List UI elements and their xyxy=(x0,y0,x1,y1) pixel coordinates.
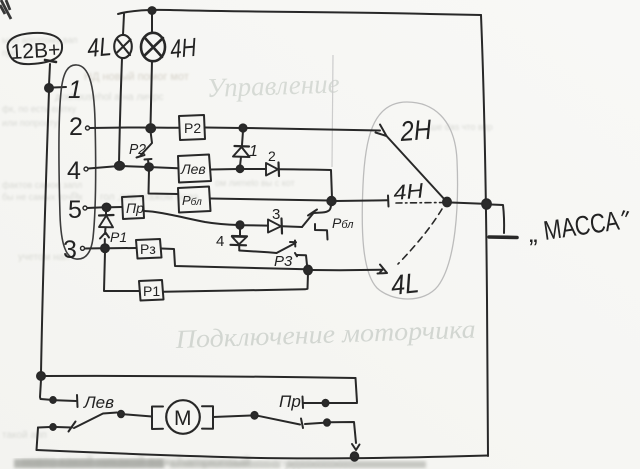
diode 3 xyxy=(268,220,281,233)
svg-text:1: 1 xyxy=(68,76,82,104)
svg-text:4: 4 xyxy=(216,233,224,250)
switch Рбл contact xyxy=(302,205,331,228)
node pin1 junction xyxy=(45,84,53,92)
svg-text:Рз: Рз xyxy=(140,241,156,257)
diode 1 xyxy=(242,131,243,145)
wire node to 4L contact xyxy=(312,269,382,271)
wire pin5 to node xyxy=(88,206,105,209)
svg-text:Пр: Пр xyxy=(126,200,144,216)
wire 12В+ to pin1 node xyxy=(49,64,50,85)
relay coil Рбл xyxy=(178,187,211,213)
wire Рз down and right to node xyxy=(162,249,307,270)
node bottom-left junction xyxy=(37,372,45,380)
faint oval around output contacts xyxy=(362,102,457,299)
wire node down to Р1 coil xyxy=(104,252,139,291)
svg-text:такой апп: такой апп xyxy=(2,430,47,441)
relay coil Р1 xyxy=(139,280,164,301)
wire Лев contact branch xyxy=(40,380,50,400)
wire diode4 to Р3 lever xyxy=(239,251,276,254)
node pin2 / lamp 4H junction xyxy=(146,124,155,132)
node rail B contact xyxy=(50,424,56,430)
node МАССА branch xyxy=(482,199,491,209)
diode 4 xyxy=(239,228,241,235)
dashed wire 4Н to focal node xyxy=(396,202,443,205)
motor M body xyxy=(166,400,200,434)
connector oval xyxy=(59,65,96,259)
svg-text:Р3: Р3 xyxy=(274,253,293,270)
wire Лев to diode1 node xyxy=(211,168,238,171)
svg-text:ше das что впр: ше das что впр xyxy=(430,122,493,132)
node Лев upper contact xyxy=(50,397,56,403)
pin 2 terminal xyxy=(86,126,90,130)
wire bottom rail A xyxy=(45,376,356,378)
switch Пр lever xyxy=(258,416,300,425)
dashed wire focal to 4L xyxy=(398,209,442,264)
node diode3 top / diode4 xyxy=(236,221,243,229)
wire to Лев tick xyxy=(56,399,76,402)
svg-text:2Н: 2Н xyxy=(398,114,433,147)
svg-text:Пр: Пр xyxy=(279,392,301,411)
wire Пр upper row xyxy=(302,397,305,409)
node Р2 contact to pin4 xyxy=(145,163,153,171)
node lamp4L to pin4 xyxy=(115,162,124,170)
node focal xyxy=(443,198,451,207)
relay coil Рз xyxy=(136,239,162,259)
contact 4L arrow xyxy=(378,265,388,274)
svg-text:4L: 4L xyxy=(389,267,420,301)
wire diode3 to Рбл lever tip xyxy=(282,225,302,228)
lamp 4L xyxy=(123,14,124,35)
diode Р1 xyxy=(105,211,107,215)
wire Рбл to 4Н node xyxy=(211,199,330,201)
faint pencil guide line xyxy=(332,55,333,167)
diode 2 xyxy=(266,163,278,176)
svg-text:Управление: Управление xyxy=(206,68,340,103)
wire right vertical xyxy=(481,15,488,456)
svg-text:Р1: Р1 xyxy=(143,283,160,299)
wire contact to motor xyxy=(124,414,152,416)
wire 2Н to focal node xyxy=(387,136,447,201)
svg-text:3: 3 xyxy=(272,206,280,223)
wire focal to right vertical xyxy=(451,203,483,204)
svg-text:Р2: Р2 xyxy=(184,120,201,136)
svg-text:НД новый помог мот: НД новый помог мот xyxy=(84,71,189,83)
battery terminal 12В+ xyxy=(8,33,63,64)
svg-text:4: 4 xyxy=(67,157,81,185)
svg-text:„: „ xyxy=(529,218,538,248)
wire motor to right node xyxy=(213,416,251,418)
svg-text:Лев: Лев xyxy=(180,161,206,177)
node pin3 junction xyxy=(101,244,109,252)
pin 3 terminal xyxy=(81,246,85,250)
relay coil Р2 xyxy=(179,115,205,140)
svg-text:Лев: Лев xyxy=(83,393,114,412)
contact 2Н arrow xyxy=(376,125,387,137)
node 4L junction xyxy=(304,266,312,275)
switch Р3 contact xyxy=(277,244,295,254)
pin 5 terminal xyxy=(83,206,87,210)
wire node to diode3 xyxy=(243,224,268,226)
wire contact to right drop xyxy=(305,422,356,443)
wire diode2 to 4Н node xyxy=(279,169,332,198)
node Пр lower contact xyxy=(324,419,330,425)
ground МАССА xyxy=(491,205,504,234)
relay coil Лев xyxy=(178,155,211,183)
svg-text:Р1: Р1 xyxy=(110,229,127,245)
wire pin4 row xyxy=(89,166,179,169)
scan smudge bottom (decorative) xyxy=(14,459,164,468)
svg-text:1: 1 xyxy=(249,143,258,160)
node bottom rail junction xyxy=(351,452,359,460)
svg-text:3: 3 xyxy=(63,236,77,264)
svg-text:5: 5 xyxy=(68,196,82,224)
wire node to diode2 xyxy=(243,168,266,170)
svg-text:Р2: Р2 xyxy=(129,141,147,158)
arrow to bottom rail xyxy=(352,444,360,450)
svg-text:2: 2 xyxy=(268,148,276,164)
wire node to 2Н contact xyxy=(246,128,380,131)
node 4Н junction xyxy=(327,197,335,205)
node Пр upper contact xyxy=(323,400,329,406)
switch Лев tick and lever xyxy=(69,422,76,432)
wire Р2 contact node down to Рбл coil xyxy=(149,170,179,194)
wire bottom rail xyxy=(37,450,489,458)
node motor left contact xyxy=(118,411,124,417)
lamp 4H xyxy=(151,14,153,33)
contact 4Н tick xyxy=(335,199,387,202)
switch Р2 contact xyxy=(141,131,153,156)
pin 4 terminal xyxy=(84,167,88,171)
svg-text:4Н: 4Н xyxy=(392,179,425,205)
svg-text:или попросту: или попросту xyxy=(2,118,58,128)
wire node to Пр coil xyxy=(110,206,122,208)
wire pin2 row xyxy=(90,126,179,129)
corner scan mark xyxy=(0,0,11,19)
wire Р2 to node xyxy=(205,127,241,130)
svg-text:М: М xyxy=(174,407,192,430)
wire Р1 coil right and up to node xyxy=(164,273,309,292)
wire node to Рз coil xyxy=(109,247,136,249)
node diode1 top xyxy=(239,124,246,131)
faint show-through group (decorative) xyxy=(2,35,493,469)
svg-text:4Н: 4Н xyxy=(169,32,198,64)
node diode1 bottom xyxy=(237,165,244,172)
svg-text:ом лиmelo вы с кот: ом лиmelo вы с кот xyxy=(215,178,295,188)
wire top rail xyxy=(118,10,481,15)
node motor right contact xyxy=(251,412,257,419)
svg-text:12В+: 12В+ xyxy=(10,38,61,64)
svg-text:4L: 4L xyxy=(86,31,113,63)
relay coil Пр xyxy=(122,196,144,219)
wire Пр to diode3 row xyxy=(144,211,238,225)
svg-text:нпж апу доп лпм тов: нпж апу доп лпм тов xyxy=(250,458,355,469)
wire node to pin 1 xyxy=(53,86,66,89)
svg-text:фк, по есть елітку: фк, по есть елітку xyxy=(2,104,77,114)
wire left vertical xyxy=(41,91,49,373)
wire pin3 to node xyxy=(85,247,101,249)
node diode Р1 top xyxy=(103,204,111,212)
node top rail / lamp 4H xyxy=(148,7,155,14)
wire rail B xyxy=(37,428,39,451)
svg-text:2: 2 xyxy=(69,113,83,141)
motor M brackets xyxy=(152,407,163,430)
